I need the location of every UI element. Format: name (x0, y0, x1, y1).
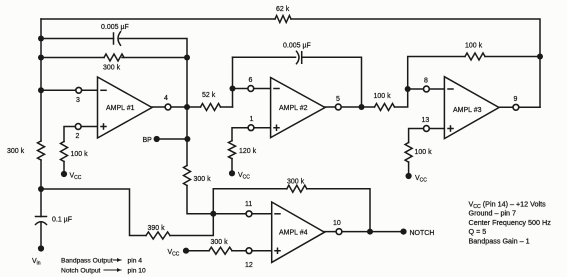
pin 12 circle (246, 248, 252, 254)
svg-text:VCC: VCC (168, 249, 180, 258)
wire C2 branch vertical (232, 57, 234, 107)
wire pin2 bias (64, 127, 98, 175)
wire pin4 output (152, 106, 187, 108)
op-amp U3 AMPL#3 (444, 77, 499, 139)
resistor 300k A4 feedback (287, 185, 307, 192)
junction pin3 rail (38, 87, 44, 93)
svg-text:0.1 µF: 0.1 µF (52, 217, 72, 224)
junction pin8 node (405, 86, 411, 92)
pin 13 circle (424, 126, 430, 132)
resistor 100k A1 bias (61, 142, 68, 162)
resistor 300k BP (184, 166, 191, 186)
wire 52k row (187, 106, 233, 108)
resistor 52k (201, 104, 221, 111)
terminal VCC A2 (229, 170, 235, 176)
svg-text:Center Frequency 500 Hz: Center Frequency 500 Hz (469, 218, 552, 227)
junction notch fb (367, 229, 373, 235)
pin 11 circle (246, 211, 252, 217)
svg-text:8: 8 (424, 77, 428, 84)
resistor 300k input (38, 141, 45, 160)
pin 8 circle (424, 86, 430, 92)
svg-text:VCC: VCC (415, 175, 427, 184)
capacitor C2 0.005uF (297, 51, 302, 63)
svg-text:100 k: 100 k (415, 149, 433, 156)
svg-text:300 k: 300 k (103, 65, 121, 72)
minus sign A4 (275, 213, 280, 215)
junction Vin summing (38, 186, 44, 192)
svg-text:VCC: VCC (238, 172, 250, 181)
terminal VCC A1 (61, 171, 67, 177)
wire pin8 (408, 88, 445, 90)
wire BP (157, 138, 188, 140)
svg-text:AMPL #3: AMPL #3 (453, 107, 482, 114)
wire pin13 bias (409, 129, 445, 177)
svg-text:390 k: 390 k (148, 225, 166, 232)
junction left C1 (38, 36, 44, 42)
plus sign A3 (448, 126, 453, 131)
wire BP column (187, 58, 213, 214)
label Bandpass Output legend (61, 258, 146, 275)
wire 100k A3 feedback row (408, 57, 540, 90)
svg-text:2: 2 (76, 133, 80, 140)
terminal Vin (38, 245, 44, 251)
minus sign A3 (448, 88, 453, 90)
wire pin11 (213, 213, 271, 215)
pin 3 circle (76, 87, 82, 93)
junction node A1 fb right (184, 55, 190, 61)
svg-text:100 k: 100 k (465, 43, 483, 50)
wire pin5 output (325, 106, 362, 108)
pin 10 circle (336, 229, 342, 235)
resistor 300k feedback A1 (104, 54, 124, 61)
svg-text:10: 10 (333, 220, 341, 227)
svg-text:300 k: 300 k (7, 148, 25, 155)
svg-text:6: 6 (249, 77, 253, 84)
svg-text:120 k: 120 k (239, 148, 257, 155)
junction node pin4 (184, 104, 190, 110)
pin 9 circle (513, 104, 519, 110)
svg-text:Bandpass Output: Bandpass Output (61, 258, 113, 265)
svg-text:3: 3 (76, 97, 80, 104)
resistor 100k A3 feedback (465, 53, 485, 60)
wire pin12 bias (186, 250, 272, 252)
node BP (154, 136, 160, 142)
pin 4 circle (165, 104, 171, 110)
junction BP (184, 136, 190, 142)
svg-text:0.005 µF: 0.005 µF (101, 24, 129, 31)
svg-text:100 k: 100 k (71, 151, 89, 158)
wire pin1 bias (232, 128, 271, 174)
svg-text:1: 1 (250, 116, 254, 123)
svg-text:pin 4: pin 4 (128, 258, 143, 265)
svg-text:4: 4 (164, 95, 168, 102)
resistor 100k mid (375, 104, 395, 111)
capacitor C1 0.005uF (114, 32, 121, 45)
svg-text:pin 10: pin 10 (128, 268, 147, 275)
svg-text:62 k: 62 k (276, 6, 290, 13)
resistor 62k (275, 16, 291, 23)
op-amp U2 AMPL#2 (271, 78, 325, 138)
op-amp U1 AMPL#1 (98, 77, 153, 138)
wire 300k feedback row (41, 57, 187, 59)
pin 1 circle (248, 125, 254, 131)
minus sign A1 (101, 89, 106, 91)
wire pin3 (41, 89, 98, 91)
wire C1 row (41, 39, 187, 58)
svg-text:AMPL #1: AMPL #1 (106, 105, 135, 112)
svg-text:5: 5 (336, 96, 340, 103)
svg-text:300 k: 300 k (194, 176, 212, 183)
arrow notch (104, 269, 121, 271)
junction pin11 node (210, 211, 216, 217)
arrow bandpass (114, 259, 122, 261)
svg-text:12: 12 (245, 262, 253, 269)
pin 5 circle (335, 104, 341, 110)
svg-text:Ground – pin 7: Ground – pin 7 (469, 209, 517, 218)
resistor 100k A3 bias (405, 143, 412, 163)
svg-text:0.005 µF: 0.005 µF (283, 43, 311, 50)
svg-text:Q = 5: Q = 5 (469, 227, 487, 236)
resistor 120k (229, 141, 236, 159)
minus sign A2 (274, 88, 279, 90)
svg-text:Vin: Vin (32, 258, 41, 267)
resistor 300k A4 bias (209, 247, 232, 254)
junction left 300k (38, 55, 44, 61)
svg-text:300 k: 300 k (287, 179, 305, 186)
plus sign A4 (275, 248, 280, 253)
wire 300k A4 feedback row (213, 189, 370, 232)
wire pin9 output (499, 106, 540, 108)
pin 6 circle (248, 86, 254, 92)
svg-text:9: 9 (514, 96, 518, 103)
notes text block (469, 200, 552, 246)
op-amp U4 AMPL#4 (272, 202, 325, 262)
junction node pin5 (359, 104, 365, 110)
wire pin10 output (325, 231, 404, 233)
svg-text:Notch Output: Notch Output (61, 268, 101, 275)
svg-text:Bandpass Gain – 1: Bandpass Gain – 1 (469, 236, 530, 245)
terminal VCC A3 (406, 173, 412, 179)
wire pin6 (233, 88, 271, 90)
svg-text:NOTCH: NOTCH (410, 230, 435, 237)
svg-text:13: 13 (422, 117, 430, 124)
svg-text:BP: BP (143, 137, 153, 144)
svg-text:52 k: 52 k (202, 92, 216, 99)
svg-text:100 k: 100 k (374, 93, 392, 100)
pin 2 circle (75, 124, 81, 130)
wire top feedback rail (41, 19, 540, 107)
svg-text:AMPL #2: AMPL #2 (279, 105, 308, 112)
terminal NOTCH (400, 229, 406, 235)
svg-text:VCC: VCC (70, 173, 82, 182)
plus sign A2 (274, 125, 279, 130)
wire 390k path (41, 189, 213, 236)
resistor 390k (146, 232, 170, 239)
svg-text:AMPL #4: AMPL #4 (279, 230, 308, 237)
left rail (40, 19, 42, 249)
plus sign A1 (101, 124, 106, 129)
terminal VCC A4 (183, 248, 189, 254)
svg-text:300 k: 300 k (211, 239, 229, 246)
wire 100k row (362, 89, 408, 107)
wire C2 row (233, 57, 362, 107)
capacitor 0.1uF (36, 217, 47, 225)
junction right rail (537, 54, 543, 60)
junction pin6 tap (230, 86, 236, 92)
svg-text:11: 11 (245, 201, 252, 208)
